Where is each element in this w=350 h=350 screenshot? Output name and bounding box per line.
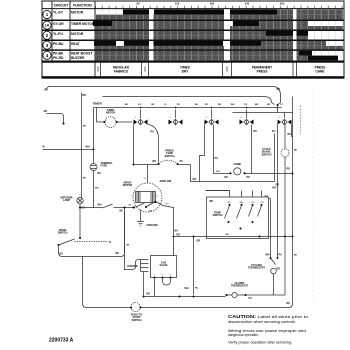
node cycle drop at bus236	[284, 236, 286, 238]
row1A timer motor bar a	[93, 21, 112, 26]
wire temp box to cycling thermostat	[269, 199, 271, 255]
node motor t1	[133, 207, 135, 209]
column line circuit/function	[69, 1, 71, 62]
circuit 3 circle	[43, 41, 51, 49]
svg-text:BUZZER: BUZZER	[71, 56, 85, 60]
svg-text:CARE: CARE	[315, 70, 324, 74]
wire right main vertical	[292, 97, 294, 305]
svg-text:MOTOR: MOTOR	[106, 112, 115, 115]
wire timer feed bus upper	[103, 97, 275, 105]
temp switch box	[207, 197, 269, 239]
svg-text:CHIME: CHIME	[233, 163, 241, 166]
svg-text:BK: BK	[82, 207, 86, 210]
wire bus y112 right	[233, 112, 293, 114]
wire timer box left vertical	[81, 93, 83, 198]
row separator 3	[42, 39, 344, 41]
wire bus y236	[174, 236, 293, 238]
svg-text:WH: WH	[149, 211, 153, 213]
wire lamp line to igniter vertical	[124, 208, 126, 253]
node valve bottom mid	[179, 296, 181, 298]
row1 stipple band lower	[96, 15, 343, 20]
svg-text:OR: OR	[126, 245, 130, 247]
svg-text:1: 1	[135, 117, 137, 119]
wire contact1 right curve drop	[148, 124, 159, 163]
svg-text:PU: PU	[215, 157, 219, 160]
temp switch contact b	[237, 202, 244, 230]
svg-text:FUNCTION: FUNCTION	[73, 3, 92, 7]
svg-text:RD: RD	[195, 288, 199, 290]
node valve bottom left	[143, 296, 145, 298]
svg-text:BU: BU	[195, 104, 199, 106]
label DOOR SWITCH	[58, 229, 68, 235]
label DRIVE MOTOR	[123, 182, 132, 188]
svg-text:MOTOR: MOTOR	[123, 184, 132, 187]
svg-text:GY-OR: GY-OR	[53, 22, 64, 26]
svg-text:RD: RD	[218, 104, 222, 106]
row separator 2	[42, 29, 344, 31]
wire motor ground drop	[140, 210, 142, 222]
wire contact1 left drop	[133, 125, 135, 165]
row2 stipple band upper	[95, 31, 266, 36]
label PUSH TO START SWITCH	[131, 314, 142, 322]
svg-text:PK-RD: PK-RD	[53, 56, 64, 60]
svg-text:BK: BK	[294, 150, 298, 152]
svg-text:SWITCH: SWITCH	[58, 232, 68, 235]
svg-text:PRESS: PRESS	[257, 70, 268, 74]
svg-text:WH: WH	[240, 202, 244, 204]
svg-text:180: 180	[210, 2, 215, 6]
thick separator above label row	[42, 61, 344, 63]
circuit 1 circle	[43, 10, 51, 18]
row3 heat bar a	[94, 41, 116, 46]
temp switch contact a	[225, 202, 232, 223]
svg-text:2: 2	[46, 33, 49, 38]
svg-text:BU: BU	[175, 230, 179, 233]
svg-text:MOTOR: MOTOR	[71, 32, 84, 36]
svg-text:OR: OR	[276, 184, 280, 187]
wire thermal fuse vertical lower	[93, 171, 95, 208]
wire hi-limit to cycling	[246, 294, 286, 296]
push to start switch dashed circle	[131, 302, 140, 311]
label PRESS CARE SWITCH	[165, 150, 175, 158]
svg-text:IGNITOR: IGNITOR	[127, 265, 138, 268]
node door switch top	[79, 237, 81, 239]
svg-text:HEAT: HEAT	[71, 42, 80, 46]
node bus junction c2	[175, 107, 177, 109]
wire timer contact bus	[94, 107, 282, 109]
row1A stipple band upper b	[259, 21, 308, 26]
svg-text:VALVE: VALVE	[160, 264, 168, 267]
svg-text:TN: TN	[244, 104, 247, 106]
row1 stipple band upper right	[277, 9, 343, 14]
node chime right	[244, 172, 246, 174]
svg-text:OFF: OFF	[96, 66, 100, 72]
svg-text:VT: VT	[280, 104, 283, 106]
svg-text:Verify proper operation after: Verify proper operation after servicing.	[228, 340, 292, 345]
svg-text:THERMOSTAT: THERMOSTAT	[248, 267, 265, 270]
svg-text:RD: RD	[116, 252, 120, 255]
svg-text:BU: BU	[217, 171, 221, 173]
wire contact3 right drop	[213, 125, 215, 174]
svg-text:BK: BK	[83, 126, 87, 128]
svg-text:AIRFLOW: AIRFLOW	[160, 180, 172, 183]
svg-text:PK: PK	[247, 176, 251, 179]
svg-text:WH: WH	[95, 188, 99, 190]
node motor t3	[155, 201, 157, 203]
svg-text:OFF: OFF	[225, 66, 229, 72]
svg-text:BK: BK	[129, 205, 132, 207]
off divider gap c	[293, 9, 297, 61]
cam switch contact 3	[205, 110, 219, 125]
node bus junction c3	[211, 107, 213, 109]
svg-text:BU: BU	[254, 130, 258, 133]
node gas valve t1	[154, 277, 156, 279]
wire x193 drop	[193, 237, 195, 295]
wire thermal fuse vertical upper	[93, 108, 95, 164]
interior lamp circle	[77, 197, 83, 203]
svg-text:240: 240	[245, 2, 250, 6]
svg-text:GR: GR	[267, 104, 271, 106]
svg-text:OR: OR	[193, 178, 197, 181]
svg-text:SWITCH: SWITCH	[132, 319, 142, 322]
circuit 4 circle	[43, 51, 51, 59]
motor winding bars right	[151, 192, 154, 203]
svg-text:CIRCUIT: CIRCUIT	[54, 3, 69, 7]
wire timer motor right lead	[117, 121, 133, 123]
row1 motor bar segment a	[123, 9, 149, 14]
svg-text:YL-GY: YL-GY	[53, 10, 64, 14]
svg-text:BK: BK	[83, 178, 87, 180]
svg-text:1A: 1A	[45, 24, 50, 28]
svg-text:OFF: OFF	[143, 66, 147, 72]
label row cell borders	[101, 63, 297, 77]
svg-text:RD: RD	[147, 293, 151, 296]
svg-text:BU: BU	[225, 176, 229, 179]
svg-text:BK: BK	[120, 210, 124, 213]
svg-text:3: 3	[170, 274, 172, 276]
wire bottom bus right of push switch	[141, 304, 293, 308]
node gas valve t2	[162, 277, 164, 279]
svg-text:FABRICS: FABRICS	[114, 70, 128, 74]
wire left bottom loop	[83, 257, 131, 308]
svg-text:OR: OR	[226, 234, 230, 236]
interior lamp filament	[78, 198, 82, 202]
node BK junction	[277, 104, 279, 106]
svg-text:GY: GY	[138, 104, 142, 106]
svg-text:DRY: DRY	[182, 70, 189, 74]
svg-text:OR: OR	[261, 202, 265, 204]
svg-text:OR: OR	[197, 240, 201, 243]
svg-text:RD: RD	[287, 168, 291, 171]
svg-text:BU: BU	[288, 133, 292, 136]
wire motor top feed	[147, 165, 149, 184]
svg-text:THERMOSTAT: THERMOSTAT	[231, 285, 248, 288]
column line number/circuit	[51, 1, 53, 62]
hi-limit thermostat symbol	[232, 292, 237, 297]
motor winding bars left	[137, 192, 140, 203]
svg-text:OR: OR	[44, 110, 48, 113]
label THERMAL FUSE	[101, 162, 114, 168]
wire contact4 right drop	[251, 125, 253, 174]
node bus236 right end	[292, 236, 294, 238]
node timer motor right	[116, 121, 118, 123]
motor winding box	[136, 192, 156, 203]
circuit 2 circle	[43, 31, 51, 39]
header tick marks	[95, 6, 344, 9]
label GAS VALVE	[160, 262, 168, 268]
wire valve bottom line	[144, 296, 226, 298]
press care switch arc dashed	[159, 160, 178, 163]
svg-text:1: 1	[46, 12, 49, 17]
node igniter vertical junction	[124, 207, 126, 209]
door switch linkage dashed	[75, 241, 108, 243]
wire cycling drop	[273, 274, 274, 295]
svg-text:60: 60	[137, 2, 140, 6]
temp switch contact d	[258, 202, 265, 217]
cam switch contact 4	[240, 110, 254, 125]
console dashed edge segment	[300, 106, 302, 134]
svg-text:BR: BR	[153, 160, 157, 163]
terminal labels on timer bus	[125, 104, 284, 106]
wire gas valve t1 drop	[154, 278, 156, 297]
node chime line right end	[292, 173, 294, 175]
node W junction	[93, 149, 95, 151]
row1A stipple band upper a	[112, 21, 226, 26]
svg-text:3: 3	[206, 117, 208, 119]
svg-text:BU: BU	[98, 172, 102, 175]
svg-text:2200733 A: 2200733 A	[49, 338, 74, 344]
wire contact5 left long drop to cycling thermostat	[277, 125, 279, 255]
svg-text:BU: BU	[252, 202, 255, 204]
svg-text:PK-BU: PK-BU	[53, 42, 64, 46]
svg-text:FUSE: FUSE	[101, 165, 108, 168]
svg-text:WH: WH	[266, 254, 270, 257]
wire temp switch stubs up	[206, 191, 262, 198]
temp switch contact c	[249, 202, 255, 223]
svg-text:PU: PU	[180, 160, 184, 163]
wire igniter to bottom	[143, 272, 145, 297]
svg-text:BK: BK	[125, 104, 129, 106]
timer motor dashed circle	[105, 117, 116, 128]
wire motor right down	[156, 202, 174, 237]
svg-text:PK: PK	[205, 104, 208, 106]
node x193 junction	[193, 236, 195, 238]
svg-text:TIMER MOTOR: TIMER MOTOR	[71, 22, 95, 26]
wire OR stub left	[47, 114, 64, 123]
node contact1 drop end	[133, 164, 135, 166]
caution text block	[228, 314, 308, 345]
svg-text:BK: BK	[273, 187, 277, 190]
svg-text:GROUND: GROUND	[147, 224, 158, 227]
svg-text:OR: OR	[151, 104, 155, 106]
svg-text:BR: BR	[255, 104, 259, 106]
switch blade lamp line	[103, 204, 113, 208]
row4 buzzer bar	[308, 56, 338, 61]
node motor left entry	[133, 207, 135, 209]
node bus junction c1	[140, 107, 142, 109]
svg-text:SWITCH: SWITCH	[262, 153, 272, 156]
svg-text:3: 3	[46, 43, 49, 48]
node gas valve t3	[170, 277, 172, 279]
wire igniter feed	[125, 255, 141, 270]
row2 stipple band lower	[95, 36, 308, 40]
row3 heat bar b	[124, 41, 223, 46]
wire L1 black top	[49, 87, 281, 103]
row3 stipple band lower	[95, 46, 343, 50]
node gas feed junction	[193, 296, 195, 298]
svg-text:MOTOR: MOTOR	[71, 10, 84, 14]
svg-text:YL: YL	[144, 178, 147, 180]
svg-text:PK-BK: PK-BK	[53, 52, 64, 56]
node chime left	[230, 172, 232, 174]
svg-text:W: W	[43, 146, 46, 149]
svg-text:TIMER: TIMER	[93, 102, 103, 106]
svg-text:1: 1	[154, 274, 156, 276]
svg-text:300: 300	[280, 2, 285, 6]
row separator 1	[42, 19, 344, 21]
node press care right	[177, 163, 179, 165]
door switch blade	[59, 239, 75, 245]
node motor t2	[145, 206, 147, 208]
svg-text:WH: WH	[86, 146, 90, 149]
wire cycle switch long drop	[284, 157, 286, 295]
column line function/timeline	[94, 1, 96, 77]
row1 motor bar segment b	[154, 9, 277, 14]
svg-text:BK: BK	[45, 89, 49, 92]
svg-text:BK: BK	[294, 255, 298, 257]
label HI-LIMIT THERMOSTAT	[231, 282, 248, 288]
node push switch right	[140, 307, 142, 309]
cam switch contact 2	[169, 110, 183, 125]
svg-text:disconnection when servicing c: disconnection when servicing controls.	[228, 319, 296, 324]
wire y190 and y181 feed lines	[200, 182, 275, 191]
svg-text:PU: PU	[279, 254, 283, 257]
svg-text:WH: WH	[98, 204, 102, 207]
cam switch contact 1	[134, 110, 148, 125]
svg-text:HEAT BOOST: HEAT BOOST	[71, 52, 92, 56]
plug tick at BK start	[46, 86, 49, 89]
svg-text:dangerous operation.: dangerous operation.	[228, 332, 259, 337]
row3 stipple band upper right	[261, 41, 326, 46]
thermal fuse internal dashes	[91, 166, 96, 169]
svg-text:2: 2	[162, 274, 164, 276]
node bus junction c4	[246, 107, 248, 109]
svg-text:6: 6	[157, 196, 159, 198]
header row bottom line	[42, 8, 344, 10]
svg-text:PU: PU	[177, 104, 180, 106]
svg-text:YL: YL	[164, 104, 167, 106]
node door switch left	[58, 244, 60, 246]
row4 heat boost bar	[299, 51, 312, 56]
svg-text:SWITCH: SWITCH	[165, 155, 175, 158]
drive motor dashed circle	[133, 183, 162, 212]
svg-text:5: 5	[279, 117, 281, 119]
wire W line	[43, 149, 94, 151]
off divider gap a	[149, 9, 154, 61]
off divider gap b	[224, 9, 230, 61]
wire chime line	[214, 173, 293, 175]
wire contact3 left drop	[200, 125, 205, 182]
svg-text:120: 120	[175, 2, 180, 6]
igniter element bars	[141, 260, 149, 272]
svg-text:BK: BK	[210, 200, 214, 203]
svg-text:PU: PU	[249, 297, 253, 300]
label INTERIOR LAMP	[61, 197, 73, 203]
svg-text:2: 2	[170, 117, 172, 119]
node push switch left	[130, 307, 132, 309]
fold mark dotted line	[312, 85, 314, 308]
row2 motor bar	[266, 31, 308, 36]
label CYCLE SIGNAL SWITCH	[262, 148, 272, 156]
svg-text:LAMP: LAMP	[63, 199, 70, 202]
thermal fuse circle	[90, 164, 97, 171]
wire gas valve feed	[173, 237, 175, 256]
chime circle	[234, 168, 241, 175]
svg-text:BK: BK	[83, 94, 87, 97]
wire door bottom U	[59, 212, 125, 257]
svg-text:RD: RD	[277, 268, 281, 271]
svg-text:YL: YL	[109, 241, 113, 244]
node junction motor-bus	[173, 236, 175, 238]
row3 heat bar c	[230, 41, 261, 46]
gas valve jumper loop	[163, 278, 171, 286]
wire lamp drop	[79, 204, 81, 238]
wire cycling tops	[271, 255, 278, 259]
row1A timer motor bar b	[233, 21, 259, 26]
row4 stipple band lower	[95, 56, 308, 61]
wire cycle switch feed from contact5 diamond	[284, 125, 286, 149]
circuit 1A circle	[43, 21, 51, 29]
svg-text:PU: PU	[272, 130, 276, 133]
cycle signal switch dashed circle	[281, 149, 289, 157]
svg-text:BK: BK	[287, 302, 291, 305]
label CYCLING THERMOSTAT	[248, 264, 265, 270]
wire OR corner up	[274, 134, 276, 182]
svg-text:4: 4	[241, 117, 243, 119]
row separator 4	[42, 49, 344, 51]
wire junction drop	[278, 103, 281, 113]
motor centrifugal switch blades	[136, 202, 155, 207]
node press care left	[158, 163, 160, 165]
svg-text:PU: PU	[151, 131, 155, 134]
node bus236 left	[259, 236, 261, 238]
chart grid background	[95, 9, 344, 61]
node lamp line junction	[79, 207, 81, 209]
svg-text:RD: RD	[166, 204, 170, 206]
thick bottom border	[42, 76, 344, 78]
cam switch contact 5	[278, 113, 292, 125]
gas valve box	[151, 256, 177, 278]
svg-text:WH: WH	[231, 104, 235, 106]
node timer motor left	[103, 121, 105, 123]
svg-text:BU: BU	[60, 253, 64, 256]
svg-text:BK: BK	[277, 88, 281, 91]
svg-text:YL-PU: YL-PU	[53, 32, 64, 36]
label TEMP SWITCH	[213, 212, 223, 218]
wire press care line	[134, 165, 200, 182]
row1A stipple band lower	[95, 26, 343, 30]
svg-text:RD: RD	[228, 202, 232, 204]
wire contact5 right drop	[292, 125, 293, 137]
wire timer motor left lead	[97, 108, 105, 123]
svg-text:WH: WH	[185, 287, 189, 290]
svg-text:SWITCH: SWITCH	[213, 214, 223, 217]
node OR stub end	[63, 123, 65, 125]
cycling thermostat symbol	[271, 268, 277, 274]
ground symbol	[137, 222, 144, 226]
svg-text:4: 4	[46, 53, 49, 58]
row4 stipple band upper	[95, 51, 299, 56]
